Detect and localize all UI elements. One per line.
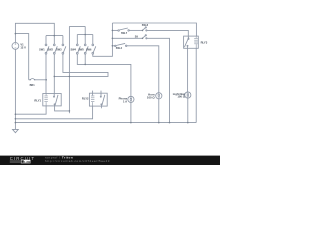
wire row4 to lamp2 (127, 46, 159, 93)
switch SW9 (143, 35, 147, 39)
ground (13, 129, 19, 132)
wire relay3 coil- to rail3 right end (195, 48, 197, 122)
svg-text:SW4: SW4 (70, 49, 76, 52)
svg-text:SW3: SW3 (56, 49, 62, 52)
wire bank2 inner bracket (77, 34, 93, 36)
breaker BR1 (29, 79, 47, 81)
junction dots (15, 30, 189, 124)
switch SW6 (92, 44, 96, 54)
svg-text:12 V: 12 V (20, 45, 26, 49)
wire bank1 bracket (46, 35, 63, 37)
footer bar (0, 156, 220, 165)
svg-text:RLY1: RLY1 (34, 98, 41, 102)
battery V1 (12, 43, 19, 50)
wire row3 to ground rail (147, 38, 169, 122)
svg-text:SW2: SW2 (47, 49, 53, 52)
svg-text:RLY3: RLY3 (201, 40, 208, 44)
relay RLY1 (43, 94, 61, 106)
wire bank1 col2 upper (53, 36, 55, 44)
labels (20, 24, 207, 103)
wire row3 (112, 37, 142, 39)
wire relay2 coil- to rail2 (15, 106, 92, 119)
wire branch to breaker (15, 34, 28, 80)
wire bank1 col3 to U-loop (54, 54, 108, 76)
wire relay1 NO to colA (55, 106, 70, 111)
wire lamp1 bottom (130, 103, 132, 123)
relay RLY2 (89, 91, 107, 109)
switch SW4 (76, 44, 80, 54)
wire top-right rail (112, 23, 196, 36)
svg-text:SW-2: SW-2 (116, 47, 123, 50)
switch SW1 (45, 44, 49, 54)
wire bank2 colB lower to lamp rail (77, 54, 131, 96)
lamp L3 (185, 92, 191, 98)
switch SW10 (115, 43, 127, 46)
svg-text:SW6: SW6 (86, 49, 92, 52)
lamp L2 (156, 93, 162, 99)
wire bank1 col1 lower to relay coil (45, 54, 47, 93)
wire bank1 col1 upper (45, 36, 47, 44)
svg-text:LAB: LAB (24, 160, 31, 164)
wire lamp3 bottom (187, 98, 189, 123)
svg-text:SW-7: SW-7 (121, 32, 128, 35)
svg-text:SW1: SW1 (39, 49, 45, 52)
wire top-left rail (15, 23, 54, 42)
relay RLY3 (184, 36, 199, 48)
wire bottom rail3 (15, 122, 196, 124)
wire lamp3 top from relay3 (187, 48, 189, 92)
svg-text:SW5: SW5 (78, 49, 84, 52)
switch SW2 (53, 44, 57, 54)
svg-text:BR1: BR1 (30, 84, 36, 87)
wire lamp2 bottom (158, 99, 160, 123)
lamp L1 (128, 96, 134, 102)
svg-text:SW-8: SW-8 (142, 24, 149, 27)
wire bank1 col3 upper (62, 36, 64, 44)
wire bank2 outer bracket (69, 25, 85, 27)
wire row1 (112, 29, 117, 31)
switch SW3 (62, 44, 66, 54)
switch SW5 (84, 44, 88, 54)
wire bank1 col2 lower to relay common (53, 54, 55, 93)
wire relay1 coil- to rail1 (15, 106, 46, 114)
wire row1 to relay3 (147, 30, 188, 36)
wire bank2 colD to right riser (93, 23, 113, 56)
switch SW8 (143, 27, 147, 31)
wire bank2 colC upper (84, 26, 86, 44)
wire row4 (112, 45, 114, 47)
wire bank2 colD upper (92, 35, 94, 45)
svg-text:100 Ω: 100 Ω (177, 95, 185, 99)
svg-text:http://circuitlab.com/c372earf: http://circuitlab.com/c372earf5ae43 (45, 159, 110, 163)
switch SW7 (118, 28, 130, 31)
wire bank2 colA (68, 26, 70, 113)
svg-text:100 Ω: 100 Ω (147, 96, 155, 100)
wire bank2 colB upper (76, 35, 78, 45)
wire bank2 colC lower (84, 54, 86, 64)
wire battery bottom (14, 49, 16, 129)
svg-text:RLY2: RLY2 (82, 97, 89, 101)
svg-text:1 A: 1 A (123, 100, 127, 104)
